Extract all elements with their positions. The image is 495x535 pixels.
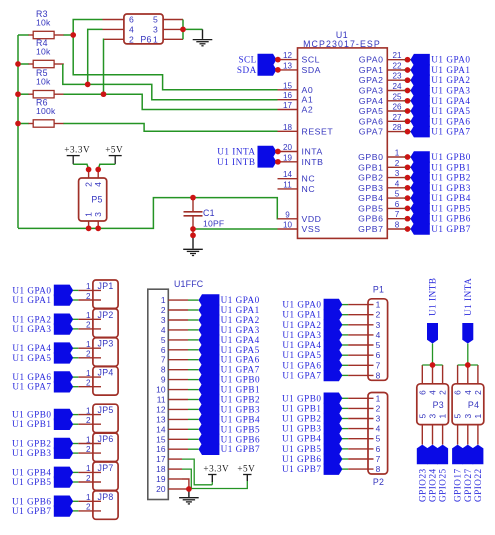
U1 pin 3 GPB2	[387, 177, 405, 179]
svg-text:U1 GPA5: U1 GPA5	[221, 345, 260, 355]
ground symbol under U1FFC	[188, 489, 190, 497]
wire U1FFC pin 17 to +3.3V	[182, 459, 212, 485]
svg-text:GPB3: GPB3	[358, 183, 383, 193]
JP3 pin 1 lead	[78, 347, 101, 349]
wire left lead R3	[18, 34, 29, 36]
P4 pin 3 lead	[467, 425, 469, 445]
wire to P1 pin 6	[342, 354, 348, 356]
resistor R4 10k	[29, 63, 34, 65]
JP5 pin 1 lead	[78, 414, 101, 416]
svg-text:U1 GPB7: U1 GPB7	[221, 444, 261, 454]
svg-text:1: 1	[86, 340, 91, 349]
svg-text:+3.3V: +3.3V	[64, 144, 90, 154]
wire R5 to A2	[64, 94, 278, 109]
svg-text:3: 3	[428, 414, 438, 419]
svg-text:GPIO17: GPIO17	[453, 468, 463, 502]
wire +3.3V to P5 pin 2	[73, 164, 88, 169]
svg-text:U1 GPB0: U1 GPB0	[431, 152, 471, 162]
U1FFC pin 19 lead	[168, 478, 182, 480]
svg-text:6: 6	[453, 390, 463, 395]
svg-text:A2: A2	[302, 105, 314, 115]
net label GPIO23 vertical	[417, 445, 428, 465]
svg-text:U1 GPB0: U1 GPB0	[282, 393, 322, 403]
svg-text:2: 2	[473, 390, 483, 395]
U1 pin 9 VDD	[278, 218, 298, 220]
svg-text:7: 7	[376, 360, 381, 370]
junction R4 on rail	[15, 61, 21, 67]
net label U1 GPA2	[324, 319, 343, 331]
wire to JP7 pin 1	[73, 471, 79, 473]
U1FFC pin 19 bend to pin 20	[182, 479, 189, 489]
net label U1 GPB4	[54, 467, 73, 479]
wire to JP1 pin 2	[73, 299, 79, 301]
net label GPIO24 vertical	[427, 445, 438, 465]
net label U1 GPB7	[324, 463, 343, 475]
junction U1 GPB2 pin	[405, 175, 411, 181]
svg-text:21: 21	[392, 51, 402, 60]
svg-text:GPB4: GPB4	[358, 193, 383, 203]
wire left lead R4	[18, 63, 29, 65]
JP5 pin 2 lead	[78, 423, 101, 425]
P1 pin 1 lead	[348, 304, 373, 306]
P5 pin 1 lead	[88, 221, 90, 228]
svg-text:U1 GPB7: U1 GPB7	[12, 506, 52, 516]
svg-text:11: 11	[283, 180, 292, 189]
svg-text:8: 8	[376, 464, 381, 474]
P6 pin 1 lead	[163, 38, 183, 40]
svg-text:U1 GPA6: U1 GPA6	[282, 360, 321, 370]
net label U1 GPB2	[54, 438, 73, 450]
svg-text:JP3: JP3	[98, 339, 114, 349]
wire to JP6 pin 1	[73, 443, 79, 445]
svg-text:18: 18	[156, 464, 166, 474]
svg-text:5: 5	[376, 434, 381, 444]
P1 pin 3 lead	[348, 324, 373, 326]
svg-text:5: 5	[417, 414, 427, 419]
JP4 pin 1 lead	[78, 376, 101, 378]
svg-text:U1FFC: U1FFC	[174, 279, 204, 289]
svg-text:U1 GPB2: U1 GPB2	[221, 395, 261, 405]
net label U1 GPB1	[54, 418, 73, 430]
connector P6	[124, 14, 163, 44]
net label U1 GPB4	[404, 197, 411, 199]
svg-text:7: 7	[395, 210, 400, 219]
svg-text:NC: NC	[302, 184, 316, 194]
svg-text:U1 GPB5: U1 GPB5	[221, 424, 261, 434]
net label U1 GPA3	[404, 90, 411, 92]
svg-text:A1: A1	[302, 95, 314, 105]
svg-text:U1 GPB0: U1 GPB0	[12, 410, 52, 420]
net label GPIO27 vertical	[462, 445, 473, 465]
svg-text:NC: NC	[302, 174, 316, 184]
svg-text:15: 15	[283, 81, 293, 90]
net label U1 INTB	[272, 161, 278, 163]
U1 pin 17 A2	[278, 109, 298, 111]
wire to P1 pin 4	[342, 334, 348, 336]
U1FFC pin 8 lead	[168, 369, 188, 371]
svg-text:U1 INTA: U1 INTA	[463, 278, 473, 316]
+5V stem	[114, 156, 116, 165]
P1 pin 8 lead	[348, 374, 373, 376]
wire to P2 pin 2	[342, 407, 348, 409]
svg-text:U1 GPA4: U1 GPA4	[282, 340, 321, 350]
junction P6 right	[180, 27, 186, 33]
capacitor C1 10PF	[192, 198, 194, 212]
svg-text:U1 GPB4: U1 GPB4	[12, 467, 52, 477]
svg-text:U1 GPB0: U1 GPB0	[221, 375, 261, 385]
svg-text:+5V: +5V	[237, 463, 255, 473]
wire to P1 pin 5	[342, 344, 348, 346]
P3 pin 3 lead	[432, 425, 434, 445]
wire to JP2 pin 1	[73, 318, 79, 320]
svg-text:4: 4	[428, 390, 438, 395]
wire label to P3	[432, 344, 434, 366]
net label U1 GPA6	[54, 371, 73, 383]
wire P4 top pins common	[458, 364, 478, 366]
wire to P2 pin 5	[342, 438, 348, 440]
svg-text:GPA3: GPA3	[359, 86, 384, 96]
JP4 pin 2 lead	[78, 386, 101, 388]
P4 pin 2 lead	[477, 365, 479, 384]
wire to JP8 pin 2	[73, 510, 79, 512]
svg-text:U1 GPA3: U1 GPA3	[431, 86, 470, 96]
svg-text:100k: 100k	[36, 106, 56, 116]
svg-text:2: 2	[86, 416, 91, 425]
svg-text:U1 GPA7: U1 GPA7	[221, 365, 260, 375]
net label U1 GPB4	[199, 414, 220, 426]
svg-text:6: 6	[161, 345, 166, 355]
U1 pin 19 INTB	[278, 161, 298, 163]
junction pins 19/20	[186, 486, 192, 492]
svg-text:28: 28	[392, 123, 402, 132]
wire U1FFC pin 10	[188, 389, 199, 391]
wire C1 to VSS	[193, 228, 278, 230]
svg-text:4: 4	[463, 390, 473, 395]
svg-text:18: 18	[283, 123, 293, 132]
net label U1 INTA	[272, 151, 278, 153]
net label U1 GPA5	[54, 352, 73, 364]
net label U1 GPA0	[54, 285, 73, 297]
P2 pin 8 lead	[348, 468, 373, 470]
connector JP4	[93, 367, 118, 395]
wire VCC rail bottom	[18, 198, 278, 229]
svg-text:U1 GPB2: U1 GPB2	[12, 439, 52, 449]
svg-text:U1 GPA6: U1 GPA6	[221, 355, 260, 365]
U1 pin 2 GPB1	[387, 166, 405, 168]
svg-text:27: 27	[392, 113, 402, 122]
svg-text:4: 4	[395, 179, 400, 188]
net label U1 GPB6	[199, 434, 220, 446]
wire to P1 pin 3	[342, 324, 348, 326]
svg-text:17: 17	[156, 454, 166, 464]
svg-text:7: 7	[376, 454, 381, 464]
net label U1 GPA4	[404, 100, 411, 102]
P1 pin 4 lead	[348, 334, 373, 336]
svg-text:JP5: JP5	[98, 405, 114, 415]
junction U1 GPB5 pin	[405, 206, 411, 212]
svg-text:3: 3	[161, 315, 166, 325]
svg-text:RESET: RESET	[302, 126, 334, 136]
svg-text:U1 GPA5: U1 GPA5	[431, 106, 470, 116]
svg-text:SDA: SDA	[302, 65, 322, 75]
svg-text:1: 1	[376, 300, 381, 310]
U1 pin 6 GPB5	[387, 207, 405, 209]
svg-text:U1 GPA5: U1 GPA5	[12, 353, 51, 363]
svg-text:JP1: JP1	[98, 281, 114, 291]
P2 pin 6 lead	[348, 448, 373, 450]
wire R4 to A1	[63, 64, 278, 100]
P3 pin 4 lead	[432, 365, 434, 384]
svg-text:U1 GPA1: U1 GPA1	[12, 295, 51, 305]
junction pin	[275, 149, 281, 155]
svg-text:P1: P1	[373, 285, 384, 295]
svg-text:12: 12	[156, 404, 166, 414]
JP2 pin 2 lead	[78, 328, 101, 330]
connector JP1	[93, 280, 118, 308]
wire to P2 pin 4	[342, 428, 348, 430]
P6 pin 6 lead	[103, 19, 124, 21]
U1FFC pin 9 lead	[168, 379, 188, 381]
wire to P2 pin 1	[342, 397, 348, 399]
ground symbol under C1	[192, 238, 194, 249]
junction U1 GPA4 pin	[405, 98, 411, 104]
net label U1 GPB2	[324, 413, 343, 425]
JP1 pin 2 lead	[78, 299, 101, 301]
svg-text:2: 2	[438, 390, 448, 395]
svg-text:U1 GPA7: U1 GPA7	[282, 370, 321, 380]
svg-text:2: 2	[376, 310, 381, 320]
svg-text:12: 12	[283, 51, 293, 60]
svg-text:U1 GPB1: U1 GPB1	[282, 403, 322, 413]
svg-text:U1 GPA4: U1 GPA4	[221, 335, 260, 345]
svg-text:1: 1	[86, 282, 91, 291]
junction U1 GPA7 pin	[405, 129, 411, 135]
P6 pin 4 lead	[103, 28, 124, 30]
net label U1 GPA1	[199, 304, 220, 316]
svg-text:U1 GPB4: U1 GPB4	[431, 193, 471, 203]
svg-text:6: 6	[129, 15, 134, 25]
svg-text:2: 2	[86, 292, 91, 301]
JP7 pin 1 lead	[78, 471, 101, 473]
wire U1FFC pin 9	[188, 379, 199, 381]
svg-text:INTA: INTA	[302, 147, 323, 157]
connector P3	[417, 384, 449, 425]
U1 pin 23 GPA2	[387, 79, 405, 81]
connector P5	[79, 178, 107, 221]
svg-text:2: 2	[86, 350, 91, 359]
svg-text:3: 3	[376, 414, 381, 424]
svg-text:16: 16	[156, 444, 166, 454]
svg-text:10: 10	[283, 221, 293, 230]
net label U1 GPB4	[324, 433, 343, 445]
U1FFC pin 4 lead	[168, 329, 188, 331]
svg-text:U1 GPB7: U1 GPB7	[282, 464, 322, 474]
svg-text:U1 GPA2: U1 GPA2	[282, 320, 321, 330]
JP8 pin 1 lead	[78, 500, 101, 502]
junction U1 GPB7 pin	[405, 226, 411, 232]
U1 pin 7 GPB6	[387, 218, 405, 220]
svg-text:U1 GPB5: U1 GPB5	[431, 203, 471, 213]
net label U1 GPB1	[199, 384, 220, 396]
U1FFC pin 2 lead	[168, 309, 188, 311]
P3 pin 6 lead	[421, 365, 423, 384]
U1FFC pin 20 lead	[168, 488, 182, 490]
net label U1 GPA4	[199, 334, 220, 346]
junction U1 GPA5 pin	[405, 108, 411, 114]
wire to P2 pin 7	[342, 458, 348, 460]
net label U1 GPB6	[324, 453, 343, 465]
junction R5 on rail	[15, 91, 21, 97]
connector JP7	[93, 462, 118, 490]
wire U1FFC pin 12	[188, 408, 199, 410]
svg-text:10k: 10k	[36, 17, 51, 27]
junction U1 GPA0 pin	[405, 57, 411, 63]
svg-text:GPA1: GPA1	[359, 65, 384, 75]
svg-text:C1: C1	[203, 208, 215, 218]
junction P4 pin 4	[465, 362, 471, 368]
svg-text:5: 5	[153, 15, 158, 25]
svg-text:1: 1	[86, 464, 91, 473]
wire to JP3 pin 1	[73, 347, 79, 349]
svg-text:10PF: 10PF	[203, 218, 224, 228]
svg-text:U1 GPB5: U1 GPB5	[282, 444, 322, 454]
svg-text:JP7: JP7	[98, 463, 114, 473]
svg-text:5: 5	[161, 335, 166, 345]
svg-text:7: 7	[161, 355, 166, 365]
svg-text:U1 GPB4: U1 GPB4	[221, 414, 261, 424]
wire to JP8 pin 1	[73, 500, 79, 502]
wire to P1 pin 7	[342, 364, 348, 366]
wire P6 pin 2 down	[103, 39, 106, 94]
net label SCL	[272, 59, 278, 61]
JP3 pin 2 lead	[78, 357, 101, 359]
svg-text:GPA7: GPA7	[359, 127, 384, 137]
svg-text:+5V: +5V	[105, 144, 123, 154]
P3 pin 1 lead	[442, 425, 444, 445]
svg-text:5: 5	[376, 340, 381, 350]
svg-text:+3.3V: +3.3V	[203, 463, 229, 473]
svg-text:5: 5	[453, 414, 463, 419]
U1FFC pin 6 lead	[168, 349, 188, 351]
U1 pin 16 A1	[278, 99, 298, 101]
U1 pin 27 GPA6	[387, 120, 405, 122]
svg-text:P4: P4	[468, 400, 479, 410]
junction P3 pin 4	[430, 362, 436, 368]
svg-text:U1 GPA5: U1 GPA5	[282, 350, 321, 360]
net label U1 GPA3	[199, 324, 220, 336]
U1FFC pin 20 lead	[182, 488, 189, 490]
svg-text:GPB5: GPB5	[358, 203, 383, 213]
svg-text:U1 GPA6: U1 GPA6	[431, 116, 470, 126]
U1 pin 1 GPB0	[387, 156, 405, 158]
svg-text:JP6: JP6	[98, 434, 114, 444]
svg-text:2: 2	[395, 159, 400, 168]
P5 pin 2 lead	[88, 170, 90, 179]
junction P5 pin 2	[86, 167, 92, 173]
wire R3 to node	[64, 34, 74, 36]
wire U1FFC pin 2	[188, 309, 199, 311]
svg-text:17: 17	[283, 101, 293, 110]
svg-text:9: 9	[161, 375, 166, 385]
wire to P2 pin 3	[342, 418, 348, 420]
U1 pin 28 GPA7	[387, 131, 405, 133]
junction P5 pin 3 on rail	[95, 226, 101, 232]
net label U1 GPB7	[54, 505, 73, 517]
net label U1 GPB3	[199, 404, 220, 416]
svg-text:4: 4	[93, 182, 103, 187]
svg-text:U1 GPA1: U1 GPA1	[431, 65, 470, 75]
net label U1 GPA6	[324, 360, 343, 372]
net label U1 GPA6	[404, 120, 411, 122]
svg-text:U1 GPA0: U1 GPA0	[431, 55, 470, 65]
net label U1 GPA6	[199, 354, 220, 366]
svg-text:3: 3	[153, 24, 158, 34]
svg-text:6: 6	[395, 200, 400, 209]
junction U1 GPB3 pin	[405, 185, 411, 191]
wire to JP2 pin 2	[73, 328, 79, 330]
U1FFC pin 13 lead	[168, 418, 188, 420]
svg-text:U1 GPB6: U1 GPB6	[282, 454, 322, 464]
wire U1FFC pin 1	[188, 299, 199, 301]
net label U1 INTB vertical	[427, 323, 438, 344]
junction C1 ground	[190, 232, 196, 238]
svg-text:5: 5	[395, 190, 400, 199]
svg-text:2: 2	[376, 403, 381, 413]
svg-text:U1 INTA: U1 INTA	[217, 147, 255, 157]
U1 pin 15 A0	[278, 89, 298, 91]
svg-text:8: 8	[161, 365, 166, 375]
wire P6 right pins common	[182, 20, 184, 40]
svg-text:U1 GPB2: U1 GPB2	[282, 414, 322, 424]
U1 pin 22 GPA1	[387, 69, 405, 71]
junction node R3/P6.6/A0	[70, 32, 76, 38]
net label U1 GPB0	[324, 393, 343, 405]
svg-text:1: 1	[376, 393, 381, 403]
svg-text:GPA6: GPA6	[359, 116, 384, 126]
svg-text:U1 GPA3: U1 GPA3	[221, 325, 260, 335]
svg-text:1: 1	[161, 295, 166, 305]
JP6 pin 1 lead	[78, 443, 101, 445]
net label U1 GPA3	[54, 323, 73, 335]
svg-text:1: 1	[86, 406, 91, 415]
svg-text:SCL: SCL	[238, 55, 256, 65]
wire R6 to RESET	[64, 124, 278, 132]
svg-text:VSS: VSS	[302, 224, 321, 234]
U1FFC pin 15 lead	[168, 438, 188, 440]
net label U1 GPA4	[324, 339, 343, 351]
svg-text:U1 GPA2: U1 GPA2	[221, 315, 260, 325]
svg-text:13: 13	[156, 414, 166, 424]
P2 pin 1 lead	[348, 397, 373, 399]
net label U1 GPB5	[54, 476, 73, 488]
P6 pin 5 lead	[163, 19, 183, 21]
net label GPIO22 vertical	[472, 445, 483, 465]
wire P3 top pins common	[422, 364, 442, 366]
net label U1 GPB0	[404, 156, 411, 158]
net label GPIO25 vertical	[437, 445, 448, 465]
P1 pin 6 lead	[348, 354, 373, 356]
JP6 pin 2 lead	[78, 452, 101, 454]
connector P1	[368, 299, 388, 381]
P5 pin 4 lead	[97, 170, 99, 179]
wire U1FFC pin 13	[188, 418, 199, 420]
P2 pin 4 lead	[348, 428, 373, 430]
svg-text:19: 19	[156, 474, 166, 484]
svg-text:GPIO27: GPIO27	[463, 468, 473, 502]
U1FFC pin 11 lead	[168, 399, 188, 401]
wire to JP5 pin 1	[73, 414, 79, 416]
svg-text:1: 1	[86, 493, 91, 502]
